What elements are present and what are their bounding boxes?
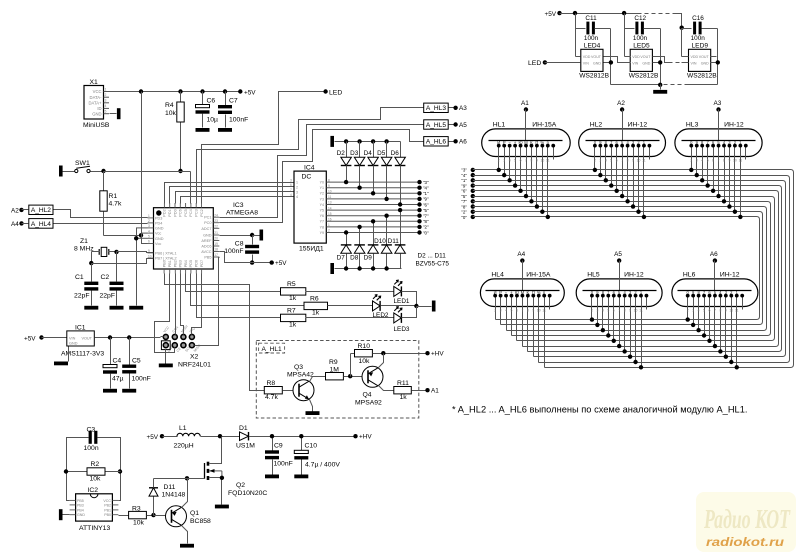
wire HL6 pin 11 stub bbox=[742, 296, 744, 310]
wire Q3 emitter to ground bbox=[310, 400, 313, 412]
node +5V (top left) bbox=[238, 89, 242, 93]
wire HL5 pin 7 down to return bus bbox=[624, 296, 626, 352]
svg-text:D6: D6 bbox=[391, 150, 400, 157]
wire IC3 to IC4 input 3 bbox=[176, 192, 295, 204]
svg-text:3: 3 bbox=[696, 159, 698, 163]
wire HL5 pin 2 down to return bus bbox=[597, 296, 599, 325]
svg-text:GND: GND bbox=[593, 62, 601, 66]
svg-text:PC0: PC0 bbox=[204, 221, 211, 225]
wire IC3 GND bus bbox=[136, 228, 138, 306]
resistor R5 1k bbox=[281, 288, 306, 295]
wire HL2 pin 8 to bus bbox=[633, 146, 635, 207]
node output "4" bbox=[417, 186, 421, 190]
wire AVCC to +5V bbox=[220, 252, 272, 263]
svg-text:IC1: IC1 bbox=[75, 324, 86, 331]
wire LED5 VDD feed bbox=[624, 29, 626, 57]
IC3 bottom pin PB4 bbox=[184, 260, 188, 273]
zener diode D7 bbox=[346, 233, 348, 245]
IC4 output Y2 wire bbox=[320, 190, 420, 196]
ground below Q2 bbox=[215, 505, 229, 509]
svg-text:C11: C11 bbox=[585, 15, 597, 22]
wire HL1 pin 6 to bus bbox=[526, 146, 528, 197]
wire HL3 pin 11 stub bbox=[745, 146, 747, 160]
svg-text:PC5: PC5 bbox=[184, 209, 188, 216]
svg-text:10: 10 bbox=[634, 309, 638, 313]
svg-text:VIN: VIN bbox=[691, 62, 697, 66]
svg-text:VDD: VDD bbox=[691, 55, 699, 59]
IC4 output Y4 wire bbox=[320, 201, 420, 207]
IC4 output Y9 wire bbox=[320, 229, 420, 235]
wire R10 to +HV node bbox=[373, 353, 428, 355]
svg-text:10k: 10k bbox=[90, 476, 102, 483]
svg-text:A4: A4 bbox=[11, 221, 19, 228]
wire HL6 pin 4 down to return bus bbox=[704, 296, 706, 336]
module LED9 WS2812B body bbox=[687, 43, 717, 80]
wire A2 anode into HL2 bbox=[622, 110, 624, 141]
IC3 bottom pin PB2 bbox=[174, 260, 178, 273]
svg-text:PB0: PB0 bbox=[162, 260, 166, 267]
wire HL4 pin 7 down to return bus bbox=[527, 296, 529, 352]
svg-text:ИН-12: ИН-12 bbox=[724, 121, 744, 128]
node output "0" bbox=[417, 230, 421, 234]
svg-text:C7: C7 bbox=[229, 98, 238, 105]
svg-text:Y2: Y2 bbox=[320, 192, 324, 196]
IC4 output Y0 wire bbox=[320, 178, 420, 184]
node XTAL1 junction bbox=[114, 250, 118, 254]
wire A1 anode into HL1 bbox=[525, 110, 527, 141]
wire C3 left loop bbox=[67, 438, 89, 501]
svg-text:MPSA92: MPSA92 bbox=[355, 400, 382, 407]
wire HL5 pin 4 down to return bus bbox=[608, 296, 610, 336]
svg-text:LED: LED bbox=[528, 60, 541, 67]
node output "6" bbox=[417, 202, 421, 206]
IC3 right pin 18 AVCC bbox=[201, 248, 219, 254]
svg-text:C6: C6 bbox=[207, 98, 216, 105]
wire L1 to D1 bbox=[201, 436, 240, 438]
svg-text:1: 1 bbox=[328, 223, 330, 227]
wire HL6 pin 8 down to return bus bbox=[725, 296, 727, 357]
IC2 left pin PB3 bbox=[70, 503, 84, 507]
svg-text:Y8: Y8 bbox=[320, 225, 324, 229]
nixie tube HL5 ИН-12 body bbox=[576, 271, 662, 306]
capacitor C3 100n bbox=[89, 431, 98, 444]
zener diode D10 bbox=[386, 216, 388, 245]
svg-text:PB1: PB1 bbox=[168, 260, 172, 267]
wire LED5 VOUT stub bbox=[653, 56, 659, 58]
nixie tube HL4 ИН-15А body bbox=[480, 271, 564, 306]
svg-text:AREF: AREF bbox=[201, 239, 212, 243]
svg-text:R5: R5 bbox=[287, 281, 296, 288]
wire crystal right to XTAL1 column bbox=[109, 251, 117, 253]
IC3 left pin 10 PB7 | XTAL2 bbox=[148, 254, 177, 260]
svg-text:PC4: PC4 bbox=[189, 209, 193, 216]
wire IC3 Vcc riser from +5V rail bbox=[141, 92, 143, 244]
wire HL2 pin 9 to bus bbox=[638, 146, 640, 212]
wire HL2 pin 6 to bus bbox=[622, 146, 624, 197]
wire LED signal to LED4 VIN bbox=[545, 62, 581, 64]
svg-text:IC2: IC2 bbox=[88, 487, 99, 494]
svg-text:PB3: PB3 bbox=[179, 260, 183, 267]
wire IC3 to IC4 input 2 bbox=[170, 187, 295, 204]
X1 pin 5 GND bbox=[92, 110, 109, 117]
svg-text:R4: R4 bbox=[165, 102, 174, 109]
zener diode D8 bbox=[359, 227, 361, 245]
wire crystal left to XTAL2 column bbox=[92, 251, 100, 253]
svg-text:Q3: Q3 bbox=[294, 364, 303, 371]
node +HV at A_HL1 bbox=[425, 351, 429, 355]
svg-text:VOUT: VOUT bbox=[591, 55, 602, 59]
wire HL1 pin 4 to bus bbox=[515, 146, 517, 186]
svg-text:9: 9 bbox=[725, 309, 727, 313]
IC4 input pin 1 bbox=[290, 178, 298, 184]
svg-text:6: 6 bbox=[516, 309, 518, 313]
svg-text:"2": "2" bbox=[423, 225, 429, 230]
svg-text:8: 8 bbox=[719, 309, 721, 313]
HL5 anode grid bar bbox=[583, 290, 657, 292]
svg-text:PD3: PD3 bbox=[155, 216, 162, 220]
wire C3 right loop bbox=[98, 438, 121, 501]
wire HL2 pin 11 stub bbox=[649, 146, 651, 160]
wire junction to Q1 bbox=[154, 515, 166, 517]
wire HL4 pin 9 down to return bus bbox=[538, 296, 540, 363]
capacitor C7 100nF bbox=[225, 92, 227, 106]
svg-text:VDD: VDD bbox=[583, 55, 591, 59]
svg-text:PB4: PB4 bbox=[184, 260, 188, 267]
svg-text:2: 2 bbox=[687, 309, 689, 313]
svg-text:3: 3 bbox=[296, 190, 298, 194]
junction R4/reset bbox=[178, 169, 182, 173]
svg-text:9: 9 bbox=[632, 159, 634, 163]
svg-text:ИН-15А: ИН-15А bbox=[526, 271, 551, 278]
svg-text:100n: 100n bbox=[691, 35, 706, 42]
wire bottom return bus 5 bbox=[517, 340, 772, 342]
svg-text:4: 4 bbox=[148, 229, 150, 233]
wire reset down to IC3 top pin bbox=[190, 172, 192, 204]
wire HL5 pin 9 down to return bus bbox=[635, 296, 637, 363]
wire HL4 pin 8 down to return bus bbox=[533, 296, 535, 357]
wire LED5 VOUT to dashes bbox=[659, 57, 669, 63]
wire LED1 to common cathode bbox=[402, 292, 417, 307]
svg-text:9: 9 bbox=[729, 159, 731, 163]
wire A_HL5 feed from PC1 bbox=[220, 125, 424, 218]
HL2 anode grid bar bbox=[586, 140, 660, 142]
ground below C1 bbox=[84, 306, 98, 310]
wire A5 anode into HL5 bbox=[619, 261, 621, 291]
svg-text:BZV55-C75: BZV55-C75 bbox=[416, 261, 450, 268]
svg-text:1: 1 bbox=[105, 87, 107, 91]
led LED1 bbox=[394, 280, 402, 296]
module LED5 WS2812B body bbox=[629, 43, 659, 80]
svg-text:PD7: PD7 bbox=[200, 260, 204, 267]
junction R1/Vcc riser bbox=[139, 233, 143, 237]
X1 pin 4 ID bbox=[97, 104, 109, 111]
capacitor C5 100nF bbox=[129, 338, 131, 365]
IC3 bottom pin PD7 bbox=[200, 260, 204, 274]
wire XTAL1 to IC3 bbox=[117, 252, 154, 253]
svg-text:R8: R8 bbox=[267, 380, 276, 387]
svg-text:GND: GND bbox=[69, 342, 78, 346]
wire LED3 to common cathode bbox=[402, 307, 417, 318]
svg-text:A2: A2 bbox=[11, 207, 19, 214]
svg-text:D1: D1 bbox=[239, 425, 248, 432]
svg-text:8 MHz: 8 MHz bbox=[74, 245, 94, 252]
node A2 anode terminal bbox=[620, 107, 624, 111]
wire Q2 source to ground bbox=[210, 478, 222, 505]
zener diode D4 bbox=[371, 139, 375, 143]
svg-text:+5V: +5V bbox=[545, 11, 557, 18]
node LED (top) bbox=[323, 89, 327, 93]
svg-text:7: 7 bbox=[618, 309, 620, 313]
wire C12 right to gnd column bbox=[644, 28, 661, 30]
wire HL3 pin 4 to bus bbox=[707, 146, 709, 186]
svg-text:2: 2 bbox=[591, 309, 593, 313]
wire Q1 collector up bbox=[182, 479, 188, 508]
svg-text:A_HL4: A_HL4 bbox=[31, 221, 51, 228]
resistor R9 1M bbox=[326, 373, 344, 380]
wire IC3 PD5 to R6 bbox=[191, 274, 305, 306]
svg-text:R10: R10 bbox=[358, 343, 371, 350]
svg-text:PB1: PB1 bbox=[104, 508, 111, 512]
IC3 left pin 2 PD4 bbox=[148, 219, 163, 225]
svg-text:C2: C2 bbox=[101, 274, 110, 281]
wire SW1 to reset net bbox=[91, 171, 104, 173]
ground for bottom zener rail bbox=[330, 263, 334, 274]
node output "5" bbox=[417, 208, 421, 212]
module box A_HL5 bbox=[424, 120, 449, 129]
svg-text:16: 16 bbox=[328, 218, 332, 222]
svg-text:+5V: +5V bbox=[244, 89, 256, 96]
svg-text:LED1: LED1 bbox=[394, 298, 410, 305]
wire HL3 pin 1 to bus bbox=[691, 146, 693, 170]
wire HL1 pin 10 to bus bbox=[547, 146, 549, 217]
svg-text:11: 11 bbox=[739, 159, 743, 163]
wire Q2 drain to top bbox=[210, 437, 222, 464]
svg-text:10µ: 10µ bbox=[207, 117, 219, 124]
capacitor C8 100nF bbox=[252, 236, 254, 245]
svg-text:5: 5 bbox=[511, 309, 513, 313]
svg-text:R3: R3 bbox=[132, 505, 141, 512]
svg-text:A3: A3 bbox=[714, 100, 722, 107]
svg-text:Q1: Q1 bbox=[190, 510, 199, 517]
svg-text:C8: C8 bbox=[235, 240, 244, 247]
HL4 anode grid bar bbox=[486, 290, 560, 292]
svg-text:A_HL3: A_HL3 bbox=[426, 105, 446, 112]
wire HL3 pin 9 to bus bbox=[734, 146, 736, 212]
svg-text:100n: 100n bbox=[584, 35, 599, 42]
svg-text:A4: A4 bbox=[517, 251, 525, 258]
wire top zener rail bbox=[335, 141, 401, 143]
svg-text:2: 2 bbox=[494, 309, 496, 313]
wire +5V LED rail end bbox=[675, 14, 682, 28]
svg-text:3: 3 bbox=[148, 224, 150, 228]
wire LED9 VDD feed bbox=[681, 29, 683, 57]
wire A_HL3 feed bbox=[197, 108, 424, 204]
svg-text:Y5: Y5 bbox=[320, 209, 324, 213]
svg-text:18: 18 bbox=[214, 248, 218, 252]
svg-text:A5: A5 bbox=[459, 122, 467, 129]
svg-text:C16: C16 bbox=[692, 15, 704, 22]
svg-text:8: 8 bbox=[627, 159, 629, 163]
wire LED9 GND pin bbox=[711, 62, 718, 64]
wire HL6 pin 5 down to return bus bbox=[709, 296, 711, 341]
resistor R6 1k bbox=[304, 302, 328, 309]
svg-text:A_HL5: A_HL5 bbox=[426, 122, 446, 129]
svg-text:3: 3 bbox=[105, 99, 107, 103]
svg-text:VOUT: VOUT bbox=[640, 55, 651, 59]
svg-text:VIN: VIN bbox=[583, 62, 589, 66]
svg-text:HL3: HL3 bbox=[686, 121, 699, 128]
svg-text:8: 8 bbox=[624, 309, 626, 313]
transistor Q4 MPSA92 bbox=[362, 366, 383, 387]
svg-text:ИН-12: ИН-12 bbox=[720, 271, 740, 278]
svg-text:3: 3 bbox=[692, 309, 694, 313]
svg-text:+5V: +5V bbox=[147, 434, 159, 441]
svg-text:17: 17 bbox=[214, 253, 218, 257]
svg-text:R9: R9 bbox=[329, 359, 338, 366]
svg-text:DC: DC bbox=[302, 174, 312, 181]
svg-text:SW1: SW1 bbox=[75, 160, 90, 167]
IC3 right pin 19 ADC6 bbox=[201, 242, 219, 248]
svg-text:GND: GND bbox=[77, 513, 85, 517]
svg-text:HL5: HL5 bbox=[587, 271, 600, 278]
ground below X2 bbox=[159, 364, 173, 368]
svg-text:2: 2 bbox=[690, 159, 692, 163]
svg-text:PD1: PD1 bbox=[168, 209, 172, 216]
svg-text:"0": "0" bbox=[423, 230, 429, 235]
svg-text:7: 7 bbox=[621, 159, 623, 163]
svg-text:10: 10 bbox=[729, 309, 733, 313]
svg-text:HL6: HL6 bbox=[683, 271, 696, 278]
svg-text:Q4: Q4 bbox=[363, 392, 372, 399]
svg-text:5: 5 bbox=[105, 110, 107, 114]
svg-text:VOUT: VOUT bbox=[81, 337, 92, 341]
svg-text:Y7: Y7 bbox=[320, 220, 324, 224]
svg-text:ИН-12: ИН-12 bbox=[624, 271, 644, 278]
svg-text:5: 5 bbox=[514, 159, 516, 163]
svg-text:A6: A6 bbox=[459, 139, 467, 146]
svg-text:21: 21 bbox=[214, 231, 218, 235]
wire Q4 emitter to +HV junction bbox=[379, 354, 384, 368]
svg-text:4: 4 bbox=[105, 104, 107, 108]
svg-text:ИН-12: ИН-12 bbox=[628, 121, 648, 128]
IC3 left pin 3 GND bbox=[148, 224, 164, 230]
svg-text:HL1: HL1 bbox=[493, 121, 506, 128]
svg-text:D4: D4 bbox=[364, 150, 373, 157]
wire HL1 pin 8 to bus bbox=[536, 146, 538, 207]
module A_HL1 dashed outline bbox=[256, 341, 419, 419]
wire IC2 PB0 to R3 bbox=[119, 515, 129, 517]
svg-text:D10: D10 bbox=[374, 238, 386, 245]
led LED3 bbox=[394, 307, 402, 323]
svg-text:5: 5 bbox=[610, 159, 612, 163]
svg-text:A5: A5 bbox=[614, 251, 622, 258]
junction R9/R10/Q4 base bbox=[348, 374, 352, 378]
svg-text:LED4: LED4 bbox=[584, 43, 601, 50]
wire LED4 VOUT stub bbox=[604, 56, 610, 58]
wire IC3 PD6 to R7 bbox=[197, 274, 281, 318]
connector X2 NRF24L01 pins bbox=[161, 324, 211, 368]
IC4 output Y3 wire bbox=[320, 195, 420, 201]
led LED2 bbox=[373, 295, 381, 311]
module box A_HL2 bbox=[29, 205, 53, 214]
nixie tube HL1 ИН-15А body bbox=[482, 121, 571, 156]
svg-text:11: 11 bbox=[735, 309, 739, 313]
wire HL1 pin 3 to bus bbox=[509, 146, 511, 181]
wire A6 anode into HL6 bbox=[714, 261, 716, 291]
wire bottom return bus 4 bbox=[523, 346, 776, 348]
svg-text:LED5: LED5 bbox=[633, 43, 650, 50]
svg-text:Y9: Y9 bbox=[320, 231, 324, 235]
wire HL2 pin 5 to bus bbox=[616, 146, 618, 191]
junction C5 bbox=[127, 335, 131, 339]
wire bottom return bus 6 bbox=[512, 335, 768, 337]
svg-text:AMS1117-3V3: AMS1117-3V3 bbox=[61, 351, 104, 358]
svg-text:2: 2 bbox=[148, 219, 150, 223]
wire HL6 pin 6 down to return bus bbox=[714, 296, 716, 347]
IC3 right pin 17 PB5 bbox=[204, 253, 219, 259]
svg-text:7: 7 bbox=[290, 188, 292, 192]
resistor R2 10k bbox=[67, 471, 88, 473]
wire bottom return bus 9 bbox=[496, 319, 757, 321]
svg-text:1k: 1k bbox=[312, 310, 320, 317]
svg-text:AVCC: AVCC bbox=[201, 250, 212, 254]
IC3 top pin PC2 bbox=[200, 203, 204, 217]
ground below IC3 GND bus bbox=[129, 306, 143, 310]
svg-text:23: 23 bbox=[214, 219, 218, 223]
svg-text:PB2: PB2 bbox=[104, 503, 111, 507]
wire IC3 to IC4 input 4 bbox=[181, 197, 295, 204]
svg-text:6: 6 bbox=[148, 240, 150, 244]
node A3 anode terminal bbox=[716, 107, 720, 111]
svg-text:D3: D3 bbox=[350, 150, 359, 157]
resistor R11 1k bbox=[394, 387, 412, 394]
svg-text:+HV: +HV bbox=[431, 351, 444, 358]
node +HV at supply bbox=[353, 434, 357, 438]
node LED signal (right) bbox=[528, 60, 541, 67]
wire HL6 pin 9 down to return bus bbox=[731, 296, 733, 363]
svg-text:15: 15 bbox=[328, 212, 332, 216]
svg-text:VIN: VIN bbox=[632, 62, 638, 66]
svg-text:100nF: 100nF bbox=[229, 117, 248, 124]
IC4 input pin 2 bbox=[290, 183, 298, 189]
IC3 top pin PC3 bbox=[195, 203, 199, 217]
HL6 anode grid bar bbox=[678, 290, 752, 292]
svg-text:C9: C9 bbox=[274, 442, 283, 449]
wire LED2 to common cathode bbox=[381, 305, 417, 307]
svg-text:Q2: Q2 bbox=[236, 482, 245, 489]
module LED4 WS2812B body bbox=[579, 43, 609, 80]
svg-text:3: 3 bbox=[503, 159, 505, 163]
IC2 left pin GND bbox=[70, 513, 86, 517]
wire HL5 pin 5 down to return bus bbox=[613, 296, 615, 341]
svg-text:3: 3 bbox=[596, 309, 598, 313]
wire reset line to IC3 bbox=[104, 171, 191, 173]
wire LED5 GND pin bbox=[653, 62, 661, 64]
svg-text:3: 3 bbox=[290, 178, 292, 182]
svg-text:VCC: VCC bbox=[103, 499, 111, 503]
svg-text:"3": "3" bbox=[423, 180, 429, 185]
svg-text:5: 5 bbox=[707, 159, 709, 163]
svg-text:2: 2 bbox=[594, 159, 596, 163]
wire HL6 pin 10 down to return bus bbox=[736, 296, 738, 368]
svg-text:PC1: PC1 bbox=[204, 216, 211, 220]
svg-text:10k: 10k bbox=[133, 519, 145, 526]
wire HL2 pin 3 to bus bbox=[605, 146, 607, 181]
wire LED net from IC3 PC2 riser bbox=[202, 92, 326, 204]
top cathode bus terminals bbox=[471, 168, 475, 172]
svg-text:R2: R2 bbox=[91, 461, 100, 468]
HL3 cathode labels bbox=[690, 140, 742, 145]
